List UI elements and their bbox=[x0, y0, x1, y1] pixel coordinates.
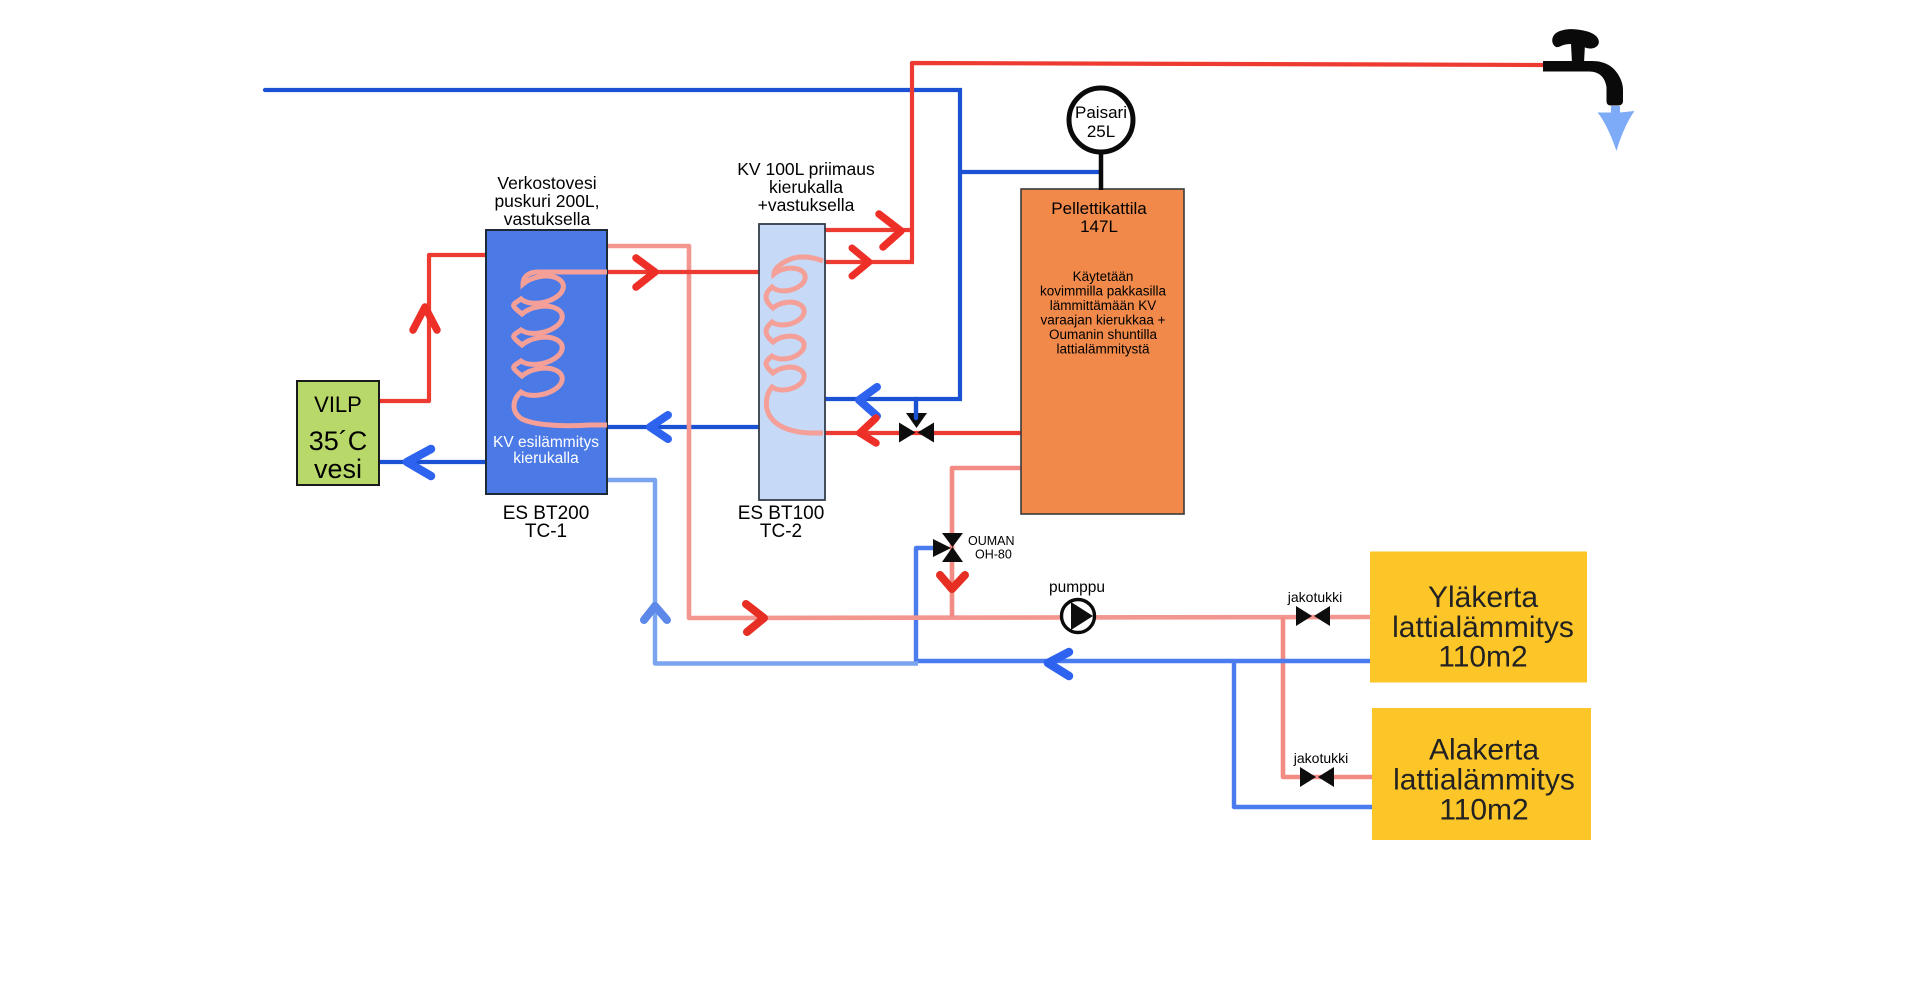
svg-text:Pellettikattila: Pellettikattila bbox=[1051, 199, 1147, 218]
svg-text:pumppu: pumppu bbox=[1049, 579, 1105, 596]
coil inside ES BT100 bbox=[766, 257, 823, 433]
arrow: blue left on return bbox=[1048, 652, 1069, 676]
arrow: blue left into VILP bbox=[407, 449, 431, 476]
svg-text:Verkostovesi: Verkostovesi bbox=[497, 173, 596, 193]
svg-text:+vastuksella: +vastuksella bbox=[758, 195, 855, 215]
wire: cold water into ES BT100 right side (blue, y 399) bbox=[825, 397, 962, 401]
boiler Pellettikattila 147L (orange) bbox=[1021, 189, 1184, 514]
svg-text:110m2: 110m2 bbox=[1438, 641, 1528, 674]
svg-text:vesi: vesi bbox=[314, 454, 362, 484]
arrow: red right on y230 bbox=[879, 214, 901, 247]
arrow: red down below OUMAN valve bbox=[940, 575, 965, 589]
svg-text:Käytetään: Käytetään bbox=[1073, 269, 1134, 284]
svg-text:kierukalla: kierukalla bbox=[769, 177, 843, 197]
pipe: pale blue return to ES BT200 bbox=[607, 480, 918, 664]
svg-text:Yläkerta: Yläkerta bbox=[1428, 581, 1538, 614]
wire: red VILP to ES BT200 bbox=[380, 255, 486, 401]
svg-text:KV 100L priimaus: KV 100L priimaus bbox=[737, 159, 875, 179]
svg-text:puskuri 200L,: puskuri 200L, bbox=[494, 191, 599, 211]
wire: red between tanks y272 bbox=[607, 270, 760, 274]
arrow: red left on y433 bbox=[860, 418, 876, 443]
arrow: red up on VILP riser bbox=[413, 307, 437, 330]
svg-text:kierukalla: kierukalla bbox=[513, 450, 579, 467]
wire: red from Pellettikattila to ES BT100 y433 bbox=[825, 431, 1022, 435]
svg-text:lattialämmitys: lattialämmitys bbox=[1392, 611, 1574, 644]
tank ES BT200 TC-1 (dark blue buffer) bbox=[486, 230, 607, 494]
valve: OUMAN OH-80 shunt at (952,547) bbox=[933, 533, 963, 562]
svg-text:jakotukki: jakotukki bbox=[1287, 589, 1342, 605]
arrow: red right on pump line bbox=[746, 604, 764, 632]
valve: jakotukki upper at (1313,616) bbox=[1296, 606, 1330, 626]
faucet drip arrow (light blue) bbox=[1598, 106, 1635, 151]
svg-text:Paisari: Paisari bbox=[1075, 103, 1127, 122]
faucet (black tap icon) bbox=[1543, 29, 1623, 105]
arrow: blue left on y427 bbox=[650, 415, 668, 439]
expansion vessel Paisari 25L bbox=[1099, 150, 1104, 190]
svg-text:kovimmilla pakkasilla: kovimmilla pakkasilla bbox=[1040, 284, 1167, 299]
wire: blue between tanks y427 bbox=[607, 425, 760, 429]
svg-text:VILP: VILP bbox=[314, 392, 362, 417]
svg-text:varaajan kierukkaa +: varaajan kierukkaa + bbox=[1041, 313, 1166, 328]
arrow: blue left on y399 bbox=[859, 387, 877, 416]
svg-text:Oumanin shuntilla: Oumanin shuntilla bbox=[1049, 327, 1158, 342]
load box: Alakerta lattialammitys 110m2 bbox=[1372, 708, 1591, 840]
svg-text:KV esilämmitys: KV esilämmitys bbox=[493, 434, 599, 451]
pipe: blue riser to OUMAN valve bbox=[916, 548, 934, 663]
arrow: red right on y262 bbox=[852, 248, 869, 276]
arrow: red right on y272 bbox=[636, 258, 655, 287]
pipe: pink from Pellettikattila bottom to OUMAN shunt bbox=[952, 468, 1022, 617]
pump (pumppu) bbox=[1062, 600, 1095, 633]
coil inside ES BT200 bbox=[514, 272, 607, 426]
wire: red from ES BT100 right to riser y262 bbox=[825, 260, 914, 264]
svg-text:25L: 25L bbox=[1087, 122, 1115, 141]
svg-text:147L: 147L bbox=[1080, 217, 1118, 236]
svg-text:OH-80: OH-80 bbox=[975, 548, 1012, 562]
wire: blue stub down into 3-way valve bbox=[914, 399, 918, 418]
pipe: pink supply from ES BT200 top to floor heating manifold bbox=[607, 246, 1371, 618]
svg-text:lämmittämään KV: lämmittämään KV bbox=[1050, 298, 1157, 313]
svg-text:TC-1: TC-1 bbox=[525, 521, 567, 542]
pipe: pink branch down to Alakerta manifold bbox=[1283, 617, 1374, 777]
svg-text:OUMAN: OUMAN bbox=[968, 534, 1015, 548]
svg-text:lattialämmitystä: lattialämmitystä bbox=[1056, 342, 1150, 357]
wire: blue return to VILP y462 bbox=[380, 460, 486, 464]
label: Verkostovesi puskuri 200L vastuksella bbox=[494, 173, 599, 229]
tank ES BT100 TC-2 (light blue) bbox=[759, 224, 825, 500]
pipe: blue return from Alakerta manifold bbox=[1234, 661, 1374, 807]
label: ES BT100 TC-2 bbox=[738, 503, 825, 542]
label: KV 100L priimaus kierukalla +vastuksella bbox=[737, 159, 875, 215]
svg-text:lattialämmitys: lattialämmitys bbox=[1393, 764, 1575, 797]
svg-text:vastuksella: vastuksella bbox=[504, 209, 591, 229]
label: ES BT200 TC-1 bbox=[503, 503, 590, 542]
valve: 3-way mixing at (916,432) bbox=[899, 413, 934, 443]
wire: red from ES BT100 top to riser y230 bbox=[825, 228, 914, 232]
pipe: blue return from Ylakerta manifold bbox=[916, 659, 1371, 663]
heat pump source box VILP bbox=[297, 381, 379, 485]
svg-text:Alakerta: Alakerta bbox=[1429, 734, 1539, 767]
svg-text:jakotukki: jakotukki bbox=[1293, 750, 1348, 766]
load box: Ylakerta lattialammitys 110m2 bbox=[1370, 552, 1587, 683]
wire: cold water main (blue) top horizontal + vertical + branch to boiler bbox=[265, 90, 1099, 399]
wire: hot supply red from x912 vertical to faucet bbox=[912, 63, 1545, 262]
svg-text:110m2: 110m2 bbox=[1439, 794, 1529, 827]
svg-text:TC-2: TC-2 bbox=[760, 521, 802, 542]
valve: jakotukki lower at (1317,777) bbox=[1300, 767, 1334, 787]
svg-text:35´C: 35´C bbox=[309, 426, 368, 456]
arrow: pale blue up at x655 bbox=[644, 606, 667, 620]
